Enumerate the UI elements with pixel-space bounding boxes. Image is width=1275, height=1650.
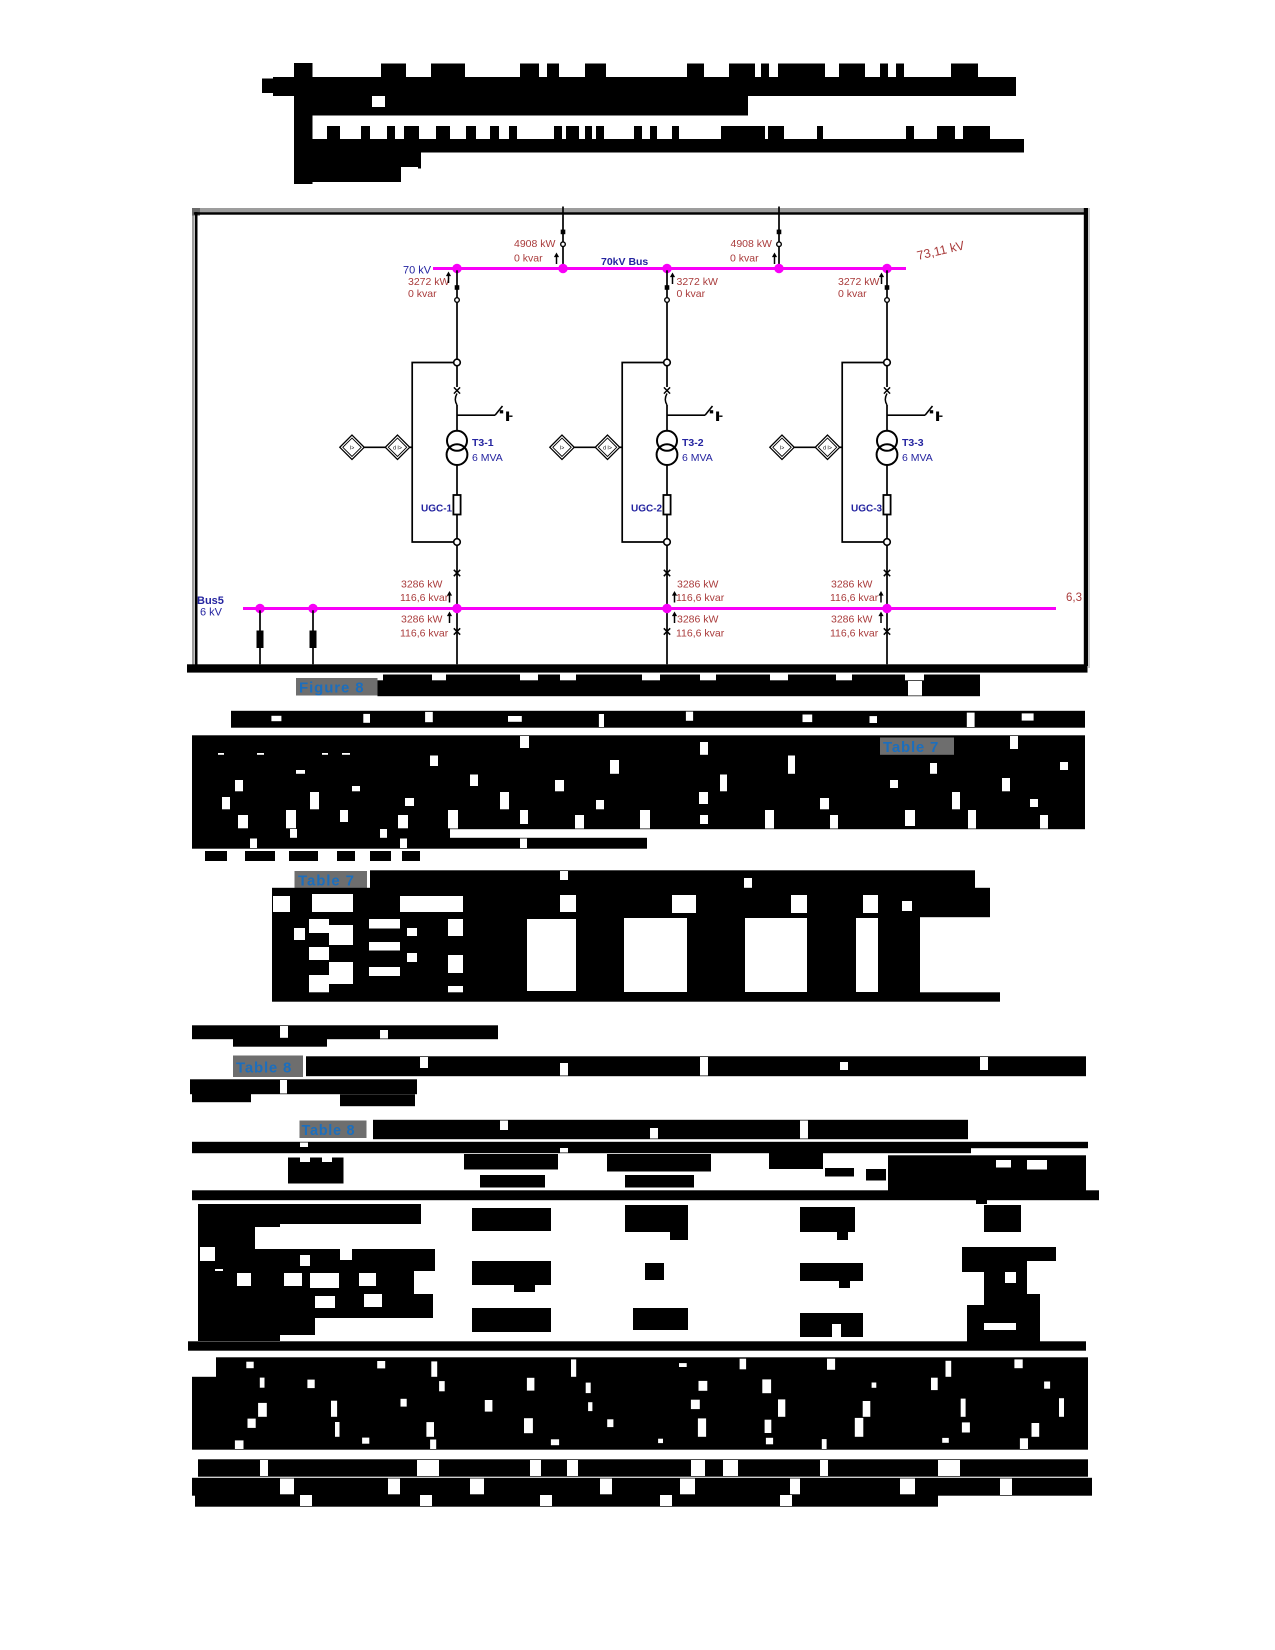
svg-text:T3-1: T3-1 bbox=[472, 437, 494, 449]
feeder 2 wire: breaker to transformer bbox=[666, 405, 668, 432]
feeder 1 wire: bus to HV node bbox=[456, 270, 458, 359]
redacted heading: left bracket bar bbox=[294, 63, 313, 184]
transformer T3-1 labels bbox=[472, 437, 503, 464]
redacted paragraph line bbox=[192, 809, 1085, 829]
Figure 8 caption link highlight bbox=[296, 678, 378, 696]
cable UGC-3 bbox=[883, 495, 890, 515]
feeder 1 wire: cable to LV node bbox=[456, 515, 458, 539]
figure caption ascender chunks bbox=[383, 675, 980, 682]
feeder power labels below 6kV bus (x=457) bbox=[400, 614, 449, 640]
svg-text:116,6 kvar: 116,6 kvar bbox=[676, 592, 725, 604]
feeder 3 HV switch bbox=[885, 285, 890, 302]
Table 8 top rule right part bbox=[971, 1142, 1088, 1148]
redacted sentence after Table 7 bbox=[192, 1025, 498, 1039]
svg-text:0 kvar: 0 kvar bbox=[408, 288, 437, 300]
svg-text:Table 8: Table 8 bbox=[302, 1123, 356, 1139]
feeder 3 relay connection wires bbox=[794, 446, 843, 448]
svg-text:d I>: d I> bbox=[393, 445, 402, 451]
feeder 3 LV node bbox=[884, 539, 891, 546]
redacted footnote line 2 bbox=[192, 1478, 1092, 1496]
redacted paragraph last line bbox=[192, 838, 647, 849]
Table 8 header: Paket label bbox=[288, 1158, 344, 1184]
feeder 3 relay diamond I> bbox=[770, 435, 794, 459]
Table 8 header right blob bbox=[888, 1155, 1086, 1191]
feeder 3 earthing switch branch bbox=[887, 406, 943, 421]
load feeder 2 fuse bbox=[310, 631, 317, 649]
transformer T3-2 bbox=[657, 431, 678, 465]
redacted paragraph line bbox=[192, 774, 1085, 793]
feeder 1 breaker (open) bbox=[454, 387, 460, 405]
feeder 3 bypass loop wire bbox=[842, 363, 884, 543]
svg-text:116,6 kvar: 116,6 kvar bbox=[830, 628, 879, 640]
feeder 1 relay diamond d I> bbox=[385, 435, 409, 459]
feeder 2 top arrow bbox=[670, 273, 675, 285]
redacted heading line 3 bbox=[310, 139, 1024, 153]
feeder 1 wire: breaker to transformer bbox=[456, 405, 458, 432]
svg-text:4908 kW: 4908 kW bbox=[731, 238, 773, 250]
feeder 3 wire: node to 6kV bus bbox=[886, 545, 888, 606]
redacted dense paragraph line bbox=[192, 1437, 1088, 1450]
redacted Table 8 caption text bbox=[373, 1120, 968, 1139]
Bus5 labels bbox=[197, 595, 224, 619]
svg-text:Table 7: Table 7 bbox=[298, 873, 355, 890]
feeder 2 HV switch bbox=[665, 285, 670, 302]
svg-text:3286 kW: 3286 kW bbox=[401, 579, 443, 591]
redacted text after Table 8 link bbox=[306, 1056, 1086, 1076]
svg-text:116,6 kvar: 116,6 kvar bbox=[830, 592, 879, 604]
feeder 1 wire: transformer to cable bbox=[456, 465, 458, 495]
Table 8 caption link highlight bbox=[300, 1121, 367, 1139]
feeder 2 relay connection wires bbox=[574, 446, 623, 448]
feeder 3 HV node bbox=[884, 359, 891, 366]
redacted intro line 2 bbox=[190, 1079, 417, 1094]
6kV bus junction dots bbox=[255, 604, 891, 613]
redacted paragraph line bbox=[192, 791, 1085, 810]
Table 7 bottom rule bbox=[272, 992, 1000, 1001]
redacted Table 7 caption text bbox=[370, 870, 975, 889]
feeder 2 wire: node to breaker bbox=[666, 366, 668, 387]
redacted footnote line 3 bbox=[195, 1494, 938, 1506]
svg-text:0 kvar: 0 kvar bbox=[838, 288, 867, 300]
svg-text:UGC-1: UGC-1 bbox=[421, 504, 453, 515]
Table 7 body bbox=[272, 916, 920, 994]
feeder 2 wire: node to 6kV bus bbox=[666, 545, 668, 606]
transformer T3-3 labels bbox=[902, 437, 933, 464]
svg-text:116,6 kvar: 116,6 kvar bbox=[400, 628, 449, 640]
Table 8 row 2 left text bbox=[215, 1249, 435, 1294]
Table 8 header rule bbox=[192, 1190, 1099, 1200]
feeder 1 wire: node to breaker bbox=[456, 366, 458, 387]
feeder power labels above 6kV bus (x=667) bbox=[676, 579, 725, 605]
svg-text:I>: I> bbox=[780, 445, 784, 451]
transformer T3-3 bbox=[877, 431, 898, 465]
feeder power labels below 6kV bus (x=667) bbox=[676, 614, 725, 640]
feeder 2 wire below 6kV bus bbox=[666, 610, 668, 664]
arrow above bus (x=667) bbox=[672, 591, 677, 603]
Table 8 column 3 values bbox=[800, 1207, 863, 1337]
svg-text:3286 kW: 3286 kW bbox=[831, 579, 873, 591]
feeder power labels above 6kV bus (x=457) bbox=[400, 579, 449, 605]
infeed 2 switch bbox=[777, 230, 782, 247]
redacted dotted row bbox=[205, 851, 420, 861]
feeder power labels above 6kV bus (x=887) bbox=[830, 579, 879, 605]
svg-text:73,11 kV: 73,11 kV bbox=[916, 238, 967, 263]
redacted dense paragraph line bbox=[216, 1357, 1088, 1378]
Table 8 column 4 values bbox=[962, 1200, 1056, 1344]
arrow below bus (x=667) bbox=[672, 612, 677, 624]
Table 8 header column blobs bbox=[464, 1148, 886, 1181]
feeder 3 wire: transformer to cable bbox=[886, 465, 888, 495]
redacted sentence descent bbox=[233, 1038, 327, 1047]
feeder 3 relay diamond d I> bbox=[815, 435, 839, 459]
svg-text:I>: I> bbox=[350, 445, 354, 451]
redacted footnote line 1 bbox=[198, 1459, 1088, 1476]
svg-text:Table 8: Table 8 bbox=[236, 1060, 292, 1077]
feeder 3 70kV power labels bbox=[838, 276, 880, 300]
svg-text:d I>: d I> bbox=[823, 445, 832, 451]
svg-text:Figure 8: Figure 8 bbox=[299, 680, 365, 697]
svg-text:d I>: d I> bbox=[603, 445, 612, 451]
diagram frame gray outer border bbox=[192, 208, 1090, 668]
cable UGC-2 bbox=[663, 495, 670, 515]
svg-text:3272 kW: 3272 kW bbox=[677, 276, 719, 288]
feeder 1 HV switch bbox=[455, 285, 460, 302]
diagram frame bottom thick border bbox=[187, 664, 1088, 672]
Table 7 inline link bbox=[880, 738, 954, 757]
Table 8 row 1 left text bbox=[280, 1204, 421, 1224]
load feeder 1 fuse bbox=[257, 631, 264, 649]
Table 8 column 2 values bbox=[625, 1205, 688, 1330]
arrow below bus (x=457) bbox=[447, 612, 452, 624]
feeder 2 breaker (open) bbox=[664, 387, 670, 405]
arrow above bus (x=457) bbox=[447, 591, 452, 603]
feeder 1 top arrow bbox=[446, 272, 451, 284]
svg-text:4908 kW: 4908 kW bbox=[514, 238, 556, 250]
svg-text:6 MVA: 6 MVA bbox=[472, 452, 503, 464]
feeder 1 relay connection wires bbox=[364, 446, 413, 448]
svg-text:T3-3: T3-3 bbox=[902, 437, 924, 449]
redacted heading line 1 top crenellation bbox=[381, 64, 978, 79]
redacted paragraph line with Table 7 reference bbox=[192, 735, 1085, 758]
svg-text:6 MVA: 6 MVA bbox=[682, 452, 713, 464]
redacted heading line 4 bbox=[294, 152, 421, 182]
70kV bus bbox=[433, 267, 906, 270]
infeed 2 arrow bbox=[772, 253, 777, 265]
feeder 2 lower switch (x) bbox=[664, 628, 670, 634]
svg-text:0 kvar: 0 kvar bbox=[514, 253, 543, 265]
feeder 2 HV node bbox=[664, 359, 671, 366]
svg-text:116,6 kvar: 116,6 kvar bbox=[400, 592, 449, 604]
feeder 2 wire: bus to HV node bbox=[666, 270, 668, 359]
feeder 1 earthing switch branch bbox=[457, 406, 513, 421]
Table 8 header lower blobs bbox=[480, 1175, 694, 1188]
redacted dense paragraph line bbox=[192, 1397, 1088, 1418]
redacted dense paragraph line bbox=[192, 1417, 1088, 1438]
feeder 3 wire: breaker to transformer bbox=[886, 405, 888, 432]
feeder 1 wire below 6kV bus bbox=[456, 610, 458, 664]
svg-text:I>: I> bbox=[560, 445, 564, 451]
redacted paragraph line bbox=[192, 828, 450, 839]
feeder 1 HV node bbox=[454, 359, 461, 366]
feeder 3 wire: bus to HV node bbox=[886, 270, 888, 359]
svg-text:3286 kW: 3286 kW bbox=[831, 614, 873, 626]
transformer T3-1 bbox=[447, 431, 468, 465]
Table 8 row 3 left text bbox=[217, 1294, 433, 1335]
feeder 3 LV switch (x) bbox=[884, 570, 890, 576]
feeder 2 bypass loop wire bbox=[622, 363, 664, 543]
infeed 1 arrow bbox=[554, 253, 559, 265]
feeder 2 relay diamond d I> bbox=[595, 435, 619, 459]
Table 7 header band bbox=[272, 888, 990, 917]
Table 7 body dashes in white columns bbox=[309, 933, 463, 986]
Table 8 caption second line / top rule bbox=[192, 1142, 971, 1153]
infeed 2 power labels bbox=[730, 238, 772, 265]
redacted intro descent a bbox=[192, 1093, 251, 1102]
Table 8 bottom rule bbox=[188, 1341, 1086, 1350]
svg-text:6 MVA: 6 MVA bbox=[902, 452, 933, 464]
feeder 1 LV node bbox=[454, 539, 461, 546]
feeder 2 wire: transformer to cable bbox=[666, 465, 668, 495]
redacted heading line 1 bbox=[273, 77, 1016, 96]
feeder 2 earthing switch branch bbox=[667, 406, 723, 421]
feeder 2 LV switch (x) bbox=[664, 570, 670, 576]
load feeder 1 wire bbox=[259, 610, 261, 664]
svg-text:3272 kW: 3272 kW bbox=[838, 276, 880, 288]
feeder 1 lower switch (x) bbox=[454, 628, 460, 634]
feeder 1 wire: node to 6kV bus bbox=[456, 545, 458, 606]
svg-text:70 kV: 70 kV bbox=[403, 265, 432, 277]
svg-text:UGC-2: UGC-2 bbox=[631, 504, 663, 515]
redacted heading line 3 top chunks bbox=[327, 126, 990, 140]
feeder 3 lower switch (x) bbox=[884, 628, 890, 634]
feeder 1 relay diamond I> bbox=[340, 435, 364, 459]
svg-text:70kV Bus: 70kV Bus bbox=[601, 256, 648, 268]
transformer T3-2 labels bbox=[682, 437, 713, 464]
feeder 2 LV node bbox=[664, 539, 671, 546]
svg-text:T3-2: T3-2 bbox=[682, 437, 704, 449]
Table 8 inline link highlight bbox=[233, 1056, 303, 1078]
svg-text:0 kvar: 0 kvar bbox=[677, 288, 706, 300]
external grid infeed wire 2 bbox=[778, 207, 780, 267]
redacted intro descent b bbox=[340, 1094, 415, 1106]
svg-text:3286 kW: 3286 kW bbox=[677, 614, 719, 626]
infeed 1 switch bbox=[561, 230, 566, 247]
feeder 2 wire: cable to LV node bbox=[666, 515, 668, 539]
feeder 3 breaker (open) bbox=[884, 387, 890, 405]
svg-text:3272 kW: 3272 kW bbox=[408, 276, 450, 288]
feeder 1 70kV power labels bbox=[408, 276, 450, 300]
external grid infeed wire 1 bbox=[562, 207, 564, 267]
svg-text:3286 kW: 3286 kW bbox=[677, 579, 719, 591]
infeed 1 power labels bbox=[514, 238, 556, 265]
feeder 3 top arrow bbox=[879, 273, 884, 285]
feeder 1 LV switch (x) bbox=[454, 570, 460, 576]
diagram frame black inner border bbox=[194, 208, 1088, 666]
arrow above bus (x=887) bbox=[878, 591, 883, 603]
svg-text:6,3: 6,3 bbox=[1066, 592, 1082, 604]
cable UGC-1 bbox=[453, 495, 460, 515]
feeder 3 wire: cable to LV node bbox=[886, 515, 888, 539]
70kV bus junction dots bbox=[452, 264, 891, 273]
svg-text:6 kV: 6 kV bbox=[200, 607, 223, 619]
redacted figure caption text bbox=[378, 680, 981, 696]
svg-text:Table 7: Table 7 bbox=[883, 739, 939, 756]
redacted paragraph line bbox=[192, 755, 1085, 775]
redacted heading line 2 bbox=[294, 96, 748, 116]
feeder 2 70kV power labels bbox=[677, 276, 719, 300]
svg-text:116,6 kvar: 116,6 kvar bbox=[676, 628, 725, 640]
arrow below bus (x=887) bbox=[878, 612, 883, 624]
redacted heading: leading dash bbox=[262, 79, 296, 94]
6kV bus Bus5 bbox=[243, 607, 1056, 610]
feeder 3 wire: node to breaker bbox=[886, 366, 888, 387]
feeder 2 relay diamond I> bbox=[550, 435, 574, 459]
svg-text:0 kvar: 0 kvar bbox=[730, 253, 759, 265]
Table 8 column 1 values bbox=[472, 1208, 551, 1332]
svg-text:3286 kW: 3286 kW bbox=[401, 614, 443, 626]
redacted dense paragraph line bbox=[192, 1377, 1088, 1398]
redacted paragraph line bbox=[231, 711, 1085, 728]
feeder 1 bypass loop wire bbox=[412, 363, 454, 543]
load feeder 2 wire bbox=[312, 610, 314, 664]
feeder 3 wire below 6kV bus bbox=[886, 610, 888, 664]
Table 8 left column text block bbox=[198, 1204, 280, 1341]
feeder power labels below 6kV bus (x=887) bbox=[830, 614, 879, 640]
svg-text:UGC-3: UGC-3 bbox=[851, 504, 883, 515]
Table 7 caption link highlight bbox=[295, 871, 368, 889]
svg-text:Bus5: Bus5 bbox=[197, 595, 224, 607]
